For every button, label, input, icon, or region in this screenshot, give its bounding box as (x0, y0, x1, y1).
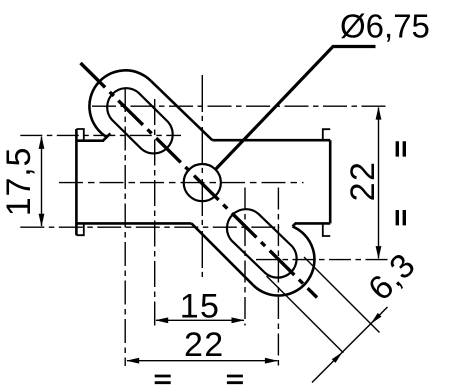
equality mark right lower (397, 210, 404, 225)
diagonal 45deg center line of slot axis (81, 63, 318, 298)
arrow lower of 6,3 (332, 352, 343, 363)
horizontal center line of lower slot end C1p (20, 226, 280, 228)
vertical center line of lower slot end C1p (244, 188, 246, 326)
arrow right of 15 (232, 317, 245, 323)
arrow down of right 22 (376, 246, 382, 259)
arrow left of bottom 22 (126, 358, 139, 364)
arrow up of 17,5 (39, 136, 45, 149)
upper slot (stadium) (107, 88, 173, 153)
svg-text:22: 22 (184, 326, 225, 364)
corner tab top-left (76, 129, 83, 141)
lower boss left tangent edge (192, 223, 254, 285)
arrow right of bottom 22 (265, 358, 278, 364)
upper boss outer arc (89, 70, 150, 137)
vertical center line of lower boss B2 (277, 188, 279, 367)
extension line upper side of slot for 6,3 (304, 257, 380, 333)
corner tab top-right (323, 129, 330, 140)
arrow left of 15 (155, 317, 168, 323)
arrow upper of 6,3 (371, 313, 382, 324)
horizontal center line of upper slot end C2 (20, 134, 181, 136)
plate outline (76, 129, 330, 235)
lower slot (stadium) (227, 209, 297, 277)
lower boss outer arc (253, 226, 314, 295)
arrow down of 17,5 (39, 214, 45, 227)
horizontal center line through part center (59, 182, 304, 184)
equality mark bottom right (227, 376, 243, 383)
central hole circle (184, 164, 221, 201)
corner tab bottom-left (76, 223, 83, 235)
dimension 6,3 line (312, 307, 388, 383)
leader line for diameter callout (216, 47, 376, 170)
corner tab bottom-right (323, 223, 330, 236)
equality mark right upper (397, 141, 404, 156)
dimension 17,5 line (41, 137, 43, 226)
equality mark bottom left (155, 376, 171, 383)
svg-text:15: 15 (180, 287, 221, 325)
dimension 15 line (156, 319, 244, 321)
horizontal center line of upper boss B1 (92, 105, 388, 107)
svg-text:17,5: 17,5 (0, 147, 38, 216)
extension line lower side of slot for 6,3 (267, 276, 344, 353)
svg-text:Ø6,75: Ø6,75 (340, 7, 430, 44)
horizontal center line of lower boss B2 (256, 259, 388, 261)
upper boss right tangent edge (151, 81, 213, 141)
svg-text:22: 22 (344, 161, 382, 202)
vertical center line of upper slot end C2 (154, 99, 156, 326)
arrow up of right 22 (376, 107, 382, 120)
dimension 22 right line (378, 108, 380, 259)
vertical center line through part center (201, 75, 203, 279)
dimension 22 bottom line (127, 360, 277, 362)
vertical center line of upper boss B1 (124, 88, 126, 366)
